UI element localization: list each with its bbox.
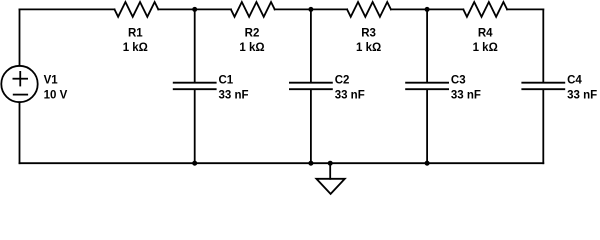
wire: C2 bottom plate down to bottom rail [310,90,312,163]
junction dot C2 at bottom rail [308,161,313,166]
capacitor C3 bottom plate [406,88,448,90]
svg-text:C2: C2 [335,75,350,87]
wire: top rail R2 to node N2 to R3 [275,8,347,10]
wire: node N3 down to C3 top plate [426,9,428,82]
svg-text:C4: C4 [567,75,582,87]
svg-text:33 nF: 33 nF [451,89,481,101]
wire: top rail from left corner to R1 [20,8,115,10]
resistor R2 [231,2,275,17]
svg-text:R1: R1 [128,28,143,40]
svg-text:R2: R2 [245,28,260,40]
junction dot C3 at bottom rail [425,161,430,166]
svg-text:1 kΩ: 1 kΩ [123,42,148,54]
junction dot node N3 top [425,7,430,12]
wire: ground stem from bottom rail [329,163,331,179]
svg-text:33 nF: 33 nF [567,89,597,101]
junction dot ground stem at bottom rail [328,161,333,166]
capacitor C3 top plate [406,82,448,84]
svg-text:R3: R3 [361,28,376,40]
capacitor C1 bottom plate [174,88,216,90]
wire: C4 bottom plate down to bottom-right corner [542,90,544,163]
resistor R1 [115,2,159,17]
svg-text:33 nF: 33 nF [335,89,365,101]
voltage source V1 circle [1,66,37,102]
V1 plus sign [13,72,27,86]
junction dot C1 at bottom rail [192,161,197,166]
svg-text:33 nF: 33 nF [219,89,249,101]
capacitor C2 top plate [290,82,332,84]
wire: node N2 down to C2 top plate [310,9,312,82]
junction dot node N2 top [308,7,313,12]
wire: V1 minus terminal down to bottom-left corner [19,102,21,163]
wire: top rail R1 to node N1 to R2 [158,8,231,10]
wire: bottom rail [20,162,544,164]
svg-text:1 kΩ: 1 kΩ [473,42,498,54]
svg-text:R4: R4 [478,28,493,40]
svg-text:C1: C1 [219,75,234,87]
resistor R4 [463,2,507,17]
capacitor C2 bottom plate [290,88,332,90]
junction dot node N1 top [192,7,197,12]
svg-text:1 kΩ: 1 kΩ [356,42,381,54]
svg-text:10 V: 10 V [44,89,68,101]
capacitor C1 top plate [174,82,216,84]
wire: top rail R3 to node N3 to R4 [391,8,463,10]
resistor R3 [347,2,391,17]
capacitor C4 bottom plate [522,88,564,90]
svg-text:C3: C3 [451,75,466,87]
ground symbol triangle [316,179,344,194]
wire: left branch from top rail down to V1 plus terminal [19,9,21,65]
svg-text:1 kΩ: 1 kΩ [239,42,264,54]
wire: C3 bottom plate down to bottom rail [426,90,428,163]
wire: C1 bottom plate down to bottom rail [194,90,196,163]
wire: top-right corner down to C4 top plate [542,9,544,82]
V1 minus sign [14,94,28,96]
wire: node N1 down to C1 top plate [194,9,196,82]
wire: top rail R4 to top-right corner [507,8,543,10]
capacitor C4 top plate [522,82,564,84]
svg-text:V1: V1 [44,75,59,87]
